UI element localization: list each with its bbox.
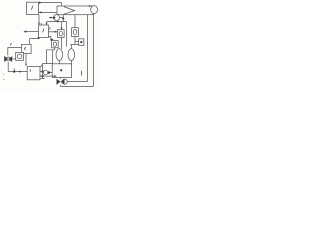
wire T1 bottom to X2 top: [60, 78, 62, 79]
small tick above E1 top: [40, 23, 42, 25]
accumulator A2 (right oval): [68, 49, 75, 61]
expansion valve X1 (bowtie, left) with circle: [4, 56, 12, 62]
arrow on wire into U1: [39, 11, 42, 13]
sensor box S1 (small box with dot): [79, 39, 84, 46]
accumulator A1 (left oval): [56, 49, 63, 61]
wire X1 bottom down and right to B1: [8, 62, 27, 72]
pump P2 (small circle): [43, 70, 47, 74]
wire RV bottom down to tee: [74, 37, 76, 45]
label 7 inside E1: [43, 29, 44, 33]
stub from RV downpipe to S1: [75, 41, 79, 43]
arrow on condenser top edge: [89, 5, 91, 7]
condensate box C6 (left middle): [22, 44, 32, 53]
wire V2 left leg down to manifold: [52, 50, 54, 64]
wire C6 bottom down with arrow to B1: [25, 54, 27, 65]
label 9 tick near T1 top-left: [40, 65, 43, 67]
wire manifold from T1 top-left going left then down: [43, 64, 53, 72]
junction dot on that wire: [62, 17, 64, 19]
wire C6 top-right up to E1 bottom line: [29, 39, 31, 45]
arrow on lower wire pointing right: [54, 75, 57, 77]
junction dot on lower pipe: [41, 75, 43, 77]
reversing valve RV (box with circle, right): [72, 28, 79, 37]
wire B1 right to pump P2 line: [40, 71, 43, 73]
junction dot at P2 outlet: [48, 71, 51, 74]
riser R2 from fan circle (outer): [61, 14, 94, 87]
wire from U1 right to condenser left: [39, 11, 58, 13]
tank T1 (wide bottom box): [52, 64, 71, 78]
arrow on that wire pointing down: [38, 23, 40, 25]
stub up from junction: [13, 68, 15, 71]
wire X2 bottom to outer return: [60, 85, 62, 87]
gauge box G1 (box with circle): [16, 52, 24, 60]
wire tee down into A2 top: [70, 45, 72, 49]
flow chevron inside HX1: [64, 7, 75, 15]
arrow into engine box top: [46, 23, 48, 25]
wire P1 outlet to vertical riser: [60, 17, 64, 19]
lead line numeral 1 near risers: [81, 71, 83, 76]
wire P2 outlet into T1: [50, 72, 52, 74]
wire from header down into V1 top: [61, 22, 63, 30]
arrow at U1 top-right outlet: [39, 2, 42, 4]
arrow into V2 top: [51, 38, 54, 41]
arrow into V1: [61, 27, 63, 29]
arrow into condenser top: [61, 6, 63, 8]
flow arrow on wire to B1: [19, 71, 22, 73]
label 5 squiggle: [10, 43, 11, 45]
condenser HX1 (long horizontal vessel): [57, 6, 93, 15]
tick inside B1: [29, 69, 32, 71]
label 1 inside U1: [31, 6, 32, 10]
arrow pointing left on P1 wire: [49, 17, 52, 19]
boundary dash marks (far left): [3, 74, 5, 80]
pump P1 under condenser: [53, 15, 59, 21]
dot inside T1: [60, 69, 62, 71]
wire into C6 left with label 5: [8, 48, 22, 56]
wire P1 suction with left arrow: [49, 17, 53, 19]
engine box E1: [39, 25, 49, 38]
valve V2 (box with oval): [52, 41, 59, 48]
valve V1 (box with oval): [58, 30, 65, 38]
fan circle at right end of HX1: [91, 6, 98, 14]
wire header right end down: [66, 22, 68, 47]
wire RV top up to condenser bottom: [74, 15, 76, 28]
wire top from U1 to condenser top: [39, 3, 62, 9]
arrow on header pointing left: [56, 21, 59, 23]
junction dot with stub on that wire: [13, 70, 15, 72]
body circle on X1: [6, 57, 10, 61]
label 6 squiggle inside C6: [24, 47, 25, 50]
arrowhead pointing left: [23, 31, 26, 33]
boiler box B1 (bottom-left): [27, 67, 40, 80]
drain leg with foot below junction: [41, 72, 45, 79]
wire E1 right to valve V1: [49, 31, 58, 33]
junction dot at manifold bottom: [41, 70, 43, 72]
junction dot at P1 inlet: [53, 17, 55, 19]
wire E1 bottom-left header: [30, 38, 39, 39]
tee bar above A2: [70, 44, 78, 46]
arrow on wire to V1: [55, 31, 58, 33]
wire lower B1 outlet to expansion valve with arrow: [40, 75, 55, 77]
expansion valve X2 (bowtie, bottom-center): [57, 79, 65, 85]
wire X1 right vertex to circle-box: [12, 58, 16, 60]
arrow pointing down at B1 top: [25, 64, 27, 67]
wire U1 down to engine box: [38, 15, 40, 26]
wire with arrow pointing left (exhaust): [25, 31, 39, 33]
wire V1 bottom down to accumulator A1: [61, 38, 63, 49]
wire header down into engine box: [46, 22, 48, 25]
junction blob at engine box corner: [38, 37, 40, 39]
wire V2 bottom jog left and down: [47, 48, 55, 64]
wire A2 bottom into tank T1: [70, 60, 72, 63]
riser R1 from condenser bottom (inner): [67, 15, 87, 82]
label 2 tick near E1 right top: [49, 27, 52, 29]
box U1 (top-left unit): [27, 2, 39, 14]
wire lower header under pump: [47, 21, 67, 23]
motor circle on X2: [62, 79, 67, 84]
wire from condenser bottom down to P1 line: [62, 15, 64, 22]
wire E1 bottom to valve V2: [49, 36, 51, 40]
wire A1 bottom into tank T1: [58, 60, 60, 63]
